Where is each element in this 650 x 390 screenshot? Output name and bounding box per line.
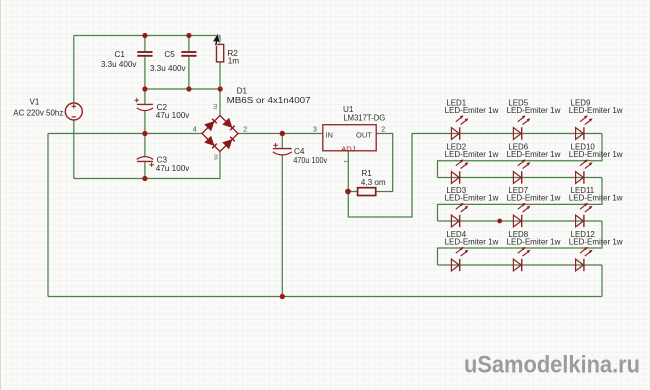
svg-text:3: 3 [313, 126, 317, 133]
wire ADJ node feed to LED row1 [348, 134, 437, 218]
wire mid rail to bridge bottom [74, 152, 220, 179]
junction C1 top [142, 33, 147, 38]
junction C5 bottom [186, 86, 191, 91]
diode D1b top-right [223, 118, 236, 131]
capacitor C2 [135, 98, 154, 111]
svg-text:m: m [212, 104, 219, 109]
svg-text:LED-Emiter 1w: LED-Emiter 1w [445, 194, 499, 203]
junction LED row3 node [497, 219, 502, 224]
svg-text:LED-Emiter 1w: LED-Emiter 1w [445, 238, 499, 247]
wire OUT pin to R1 right [376, 134, 393, 192]
svg-text:C5: C5 [164, 50, 175, 59]
wire C2 leads [144, 89, 146, 134]
capacitor C1 [137, 52, 152, 56]
junction R2 bottom rail [218, 86, 223, 91]
LED LED5 [513, 115, 530, 139]
wire LED row1 [438, 133, 603, 135]
junction C5 top [186, 33, 191, 38]
svg-text:LED-Emiter 1w: LED-Emiter 1w [507, 238, 561, 247]
svg-text:LED-Emiter 1w: LED-Emiter 1w [507, 106, 561, 115]
svg-text:MB6S or 4x1n4007: MB6S or 4x1n4007 [227, 95, 311, 105]
svg-text:LED-Emiter 1w: LED-Emiter 1w [507, 150, 561, 159]
wire ADJ pin lead [347, 151, 349, 192]
wire R1 left lead [348, 191, 357, 193]
capacitor C3 [137, 157, 154, 167]
svg-text:LED-Emiter 1w: LED-Emiter 1w [445, 150, 499, 159]
LED LED12 [576, 247, 593, 271]
svg-text:OUT: OUT [356, 130, 372, 139]
svg-text:uSamodelkina.ru: uSamodelkina.ru [464, 352, 640, 379]
LED LED1 [451, 115, 468, 139]
svg-text:IN: IN [325, 130, 333, 139]
wire R2 bottom lead to bridge top [219, 62, 221, 116]
wire bottom rail [48, 296, 602, 298]
regulator U1 LM317T-DG [323, 125, 376, 151]
wire row2 to row3 return [438, 178, 603, 222]
wire bridge minus to left rail [48, 133, 202, 135]
svg-text:C1: C1 [115, 50, 126, 59]
capacitor C5 [181, 52, 196, 56]
svg-text:LED-Emiter 1w: LED-Emiter 1w [569, 238, 623, 247]
wire left vertical minus [47, 134, 49, 297]
wire LED row2 [438, 177, 603, 179]
wire C5 leads [188, 36, 190, 90]
diode D1c bottom-left [205, 136, 218, 149]
junction C4 top node [280, 131, 285, 136]
svg-text:LED-Emiter 1w: LED-Emiter 1w [569, 106, 623, 115]
LED LED6 [513, 159, 530, 183]
junction C4 bottom node [280, 294, 285, 299]
wire V1 bottom lead [73, 120, 75, 179]
wire LED row4 [438, 264, 603, 266]
LED LED10 [576, 159, 593, 183]
LED LED3 [451, 203, 468, 227]
svg-text:LED-Emiter 1w: LED-Emiter 1w [507, 194, 561, 203]
svg-text:4: 4 [193, 127, 197, 134]
wire C4 top lead [281, 134, 283, 149]
diode D1d bottom-right [223, 136, 236, 149]
wire V1 top lead [73, 36, 75, 104]
wire R2 top lead [219, 36, 221, 45]
LED LED9 [576, 115, 593, 139]
wire top rail V1 to R2 [74, 35, 220, 37]
diode D1a top-left [205, 118, 218, 131]
wire LED row3 [438, 220, 603, 222]
svg-text:LED-Emiter 1w: LED-Emiter 1w [569, 150, 623, 159]
LED LED8 [513, 247, 530, 271]
resistor R2 [217, 44, 224, 62]
wire C3 leads [144, 134, 146, 179]
svg-text:2: 2 [381, 126, 385, 133]
junction C1 bottom [142, 86, 147, 91]
LED LED4 [451, 247, 468, 271]
svg-text:m: m [212, 154, 219, 159]
svg-text:1: 1 [344, 159, 351, 163]
svg-text:LM317T-DG: LM317T-DG [343, 112, 385, 122]
wire C1 leads [144, 36, 146, 90]
svg-text:V1: V1 [30, 98, 40, 107]
svg-text:AC 220v 50hz: AC 220v 50hz [13, 108, 63, 118]
svg-text:47u 100v: 47u 100v [156, 110, 190, 120]
wire bridge plus to IN pin [238, 133, 323, 135]
LED LED11 [576, 203, 593, 227]
svg-text:LED-Emiter 1w: LED-Emiter 1w [445, 106, 499, 115]
junction C2-C3 node [142, 131, 147, 136]
svg-text:LED-Emiter 1w: LED-Emiter 1w [569, 194, 623, 203]
svg-text:470u 100v: 470u 100v [293, 155, 327, 165]
wire row4 to bottom rail [601, 265, 603, 297]
wire C4 bottom lead [281, 154, 283, 296]
svg-text:4,3 om: 4,3 om [361, 177, 386, 187]
junction C3 bottom node [142, 176, 147, 181]
svg-text:1m: 1m [228, 57, 240, 66]
wire row1 to row2 return [438, 134, 603, 178]
svg-text:ADJ: ADJ [341, 145, 355, 154]
mouse cursor [211, 33, 221, 47]
svg-text:3.3u 400v: 3.3u 400v [101, 59, 137, 69]
svg-text:47u 100v: 47u 100v [156, 163, 190, 173]
resistor R1 [358, 188, 376, 196]
capacitor C4 [273, 143, 292, 155]
diode bridge D1 [202, 104, 238, 160]
svg-text:3.3u 400v: 3.3u 400v [150, 63, 186, 73]
svg-text:2: 2 [243, 127, 247, 134]
wire rail C1-C5-R2 bottom [145, 88, 220, 90]
junction ADJ R1 node [345, 189, 351, 195]
wire row3 to row4 return [438, 221, 603, 265]
LED LED2 [451, 159, 468, 183]
AC source V1 [65, 103, 82, 120]
LED LED7 [513, 203, 530, 227]
